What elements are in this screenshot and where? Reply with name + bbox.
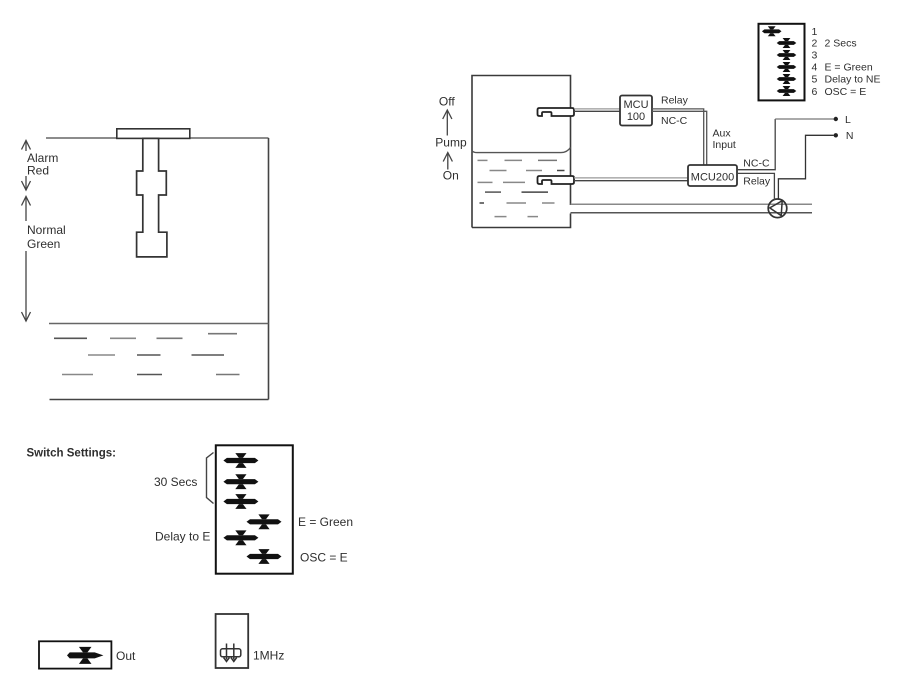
switch 4 xyxy=(247,514,282,529)
svg-text:30 Secs: 30 Secs xyxy=(154,475,197,489)
tank T1 top line xyxy=(46,137,269,139)
terminal L xyxy=(834,117,838,121)
svg-text:E = Green: E = Green xyxy=(298,515,353,529)
pump P1 xyxy=(768,199,787,218)
svg-text:Aux: Aux xyxy=(713,127,732,139)
switch 3 xyxy=(223,494,258,509)
float sensor upper xyxy=(538,108,575,116)
pipe bottom line xyxy=(571,212,813,214)
crystal symbol xyxy=(221,644,241,662)
float sensor lower xyxy=(538,176,575,184)
legend box 1MHz xyxy=(216,614,249,668)
switch S2-4 xyxy=(777,62,797,72)
svg-text:1MHz: 1MHz xyxy=(253,649,284,663)
svg-text:Red: Red xyxy=(27,164,49,178)
switch symbol Out xyxy=(67,647,103,664)
DIP switch box S1 xyxy=(216,445,293,573)
svg-text:NC-C: NC-C xyxy=(661,115,688,127)
wire MCU100 relay NC to aux xyxy=(652,109,704,165)
svg-text:L: L xyxy=(845,114,851,126)
switch S2-3 xyxy=(777,50,797,60)
MCU200 box xyxy=(688,165,737,186)
svg-text:100: 100 xyxy=(627,111,645,123)
svg-text:6: 6 xyxy=(812,86,818,98)
svg-text:Switch Settings:: Switch Settings: xyxy=(27,448,116,460)
svg-text:E = Green: E = Green xyxy=(825,62,873,74)
svg-text:Out: Out xyxy=(116,649,136,663)
svg-text:Delay to NE: Delay to NE xyxy=(825,74,881,86)
float switch F1 cap xyxy=(117,129,190,139)
svg-text:5: 5 xyxy=(812,74,818,86)
wire MCU100 relay C to aux xyxy=(652,111,707,165)
arrow Normal range xyxy=(22,197,31,322)
svg-text:Relay: Relay xyxy=(743,176,771,188)
svg-text:On: On xyxy=(443,168,459,182)
svg-text:2 Secs: 2 Secs xyxy=(825,38,857,50)
svg-text:Delay to E: Delay to E xyxy=(155,530,210,544)
wire float2 to MCU200 xyxy=(574,177,688,179)
switch 6 xyxy=(247,549,282,564)
tank T2 water line xyxy=(472,148,571,153)
switch S2-2 xyxy=(777,38,797,48)
tank T1 right wall xyxy=(268,138,270,400)
switch 1 xyxy=(223,453,258,468)
MCU100 box xyxy=(620,96,652,126)
svg-text:2: 2 xyxy=(812,38,818,50)
switch S2-1 xyxy=(762,26,782,36)
svg-text:Relay: Relay xyxy=(661,95,689,107)
svg-text:MCU200: MCU200 xyxy=(691,171,734,183)
arrow pump on xyxy=(443,153,452,170)
svg-text:4: 4 xyxy=(812,62,818,74)
switch 2 xyxy=(223,474,258,489)
DIP switch box S2 xyxy=(759,24,805,101)
water dashes T2 xyxy=(478,160,565,216)
switch S2-5 xyxy=(777,74,797,84)
tank T1 water line xyxy=(49,323,269,325)
svg-text:OSC = E: OSC = E xyxy=(825,86,867,98)
switch 5 xyxy=(223,530,258,545)
svg-text:Normal: Normal xyxy=(27,223,66,237)
svg-text:Input: Input xyxy=(713,139,736,151)
svg-text:MCU: MCU xyxy=(623,99,648,111)
svg-text:3: 3 xyxy=(812,50,818,62)
svg-text:NC-C: NC-C xyxy=(743,158,770,170)
svg-text:N: N xyxy=(846,130,854,142)
arrow Alarm range xyxy=(22,141,31,191)
pipe top line xyxy=(571,203,813,205)
svg-text:1: 1 xyxy=(812,26,818,38)
switch S2-6 xyxy=(777,86,797,96)
legend box Out xyxy=(39,641,111,668)
svg-text:Pump: Pump xyxy=(435,136,467,150)
brace 30 Secs xyxy=(207,453,214,504)
tank T1 bottom xyxy=(50,399,269,401)
svg-text:Green: Green xyxy=(27,237,60,251)
svg-text:OSC = E: OSC = E xyxy=(300,551,348,565)
float switch F1 body xyxy=(137,138,167,257)
tank T2 walls xyxy=(472,76,571,228)
water dashes T1 xyxy=(54,334,240,375)
terminal N xyxy=(834,133,838,137)
wire NC-C to L xyxy=(737,119,775,170)
wire Relay to pump xyxy=(737,173,774,200)
arrow pump off xyxy=(443,110,452,136)
wire float1 to MCU100 xyxy=(574,108,620,110)
wire N to pump xyxy=(778,135,833,200)
svg-text:Off: Off xyxy=(439,94,455,108)
